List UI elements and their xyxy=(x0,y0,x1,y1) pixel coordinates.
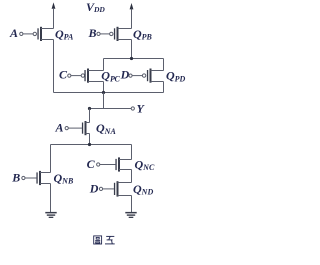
svg-text:B: B xyxy=(88,26,97,40)
input terminal A (QPA gate) xyxy=(9,26,23,40)
svg-text:QPA: QPA xyxy=(55,27,74,42)
wire output node horizontal xyxy=(90,108,132,110)
wire A to QNA gate xyxy=(68,127,82,129)
pmos QPD xyxy=(142,69,163,83)
wire B to QPB gate xyxy=(100,33,110,35)
wire output node to QNA drain xyxy=(89,109,91,123)
svg-text:QNB: QNB xyxy=(54,171,74,186)
wire node 1 down to QPC source xyxy=(103,59,105,71)
power VDD arrow right / QPB source rail xyxy=(130,3,134,29)
ground at QND source xyxy=(125,212,136,218)
wire C to QPC gate xyxy=(71,75,81,77)
pmos QPA xyxy=(33,27,53,41)
pmos QPB xyxy=(110,27,132,41)
wire QNC source to QND drain xyxy=(131,170,133,183)
svg-text:QPB: QPB xyxy=(133,27,153,42)
junction QNA source on node 3 xyxy=(88,143,91,146)
wire node 3 down to QNC drain xyxy=(131,145,133,160)
wire node 2 horizontal xyxy=(54,92,164,94)
label QNA xyxy=(96,121,116,136)
wire QNB source to ground xyxy=(50,184,52,213)
wire QPD drain to node 2 xyxy=(163,82,165,93)
svg-text:Y: Y xyxy=(137,102,146,116)
input terminal D (QPD gate) xyxy=(120,68,132,82)
wire QND source to ground xyxy=(131,196,133,213)
svg-text:VDD: VDD xyxy=(86,0,105,14)
label QPC xyxy=(101,69,120,84)
wire node 1 horizontal xyxy=(104,58,164,60)
svg-text:QND: QND xyxy=(133,182,153,197)
input terminal B (QPB gate) xyxy=(88,26,101,40)
input terminal A (QNA gate) xyxy=(55,120,69,134)
label QNB xyxy=(54,171,74,186)
net VDD label xyxy=(86,0,105,14)
wire C to QNC gate xyxy=(100,164,116,166)
output terminal Y xyxy=(131,102,145,116)
input terminal B (QNB gate) xyxy=(11,170,25,184)
svg-text:A: A xyxy=(55,120,64,134)
svg-text:QNC: QNC xyxy=(135,157,155,172)
caption 圖五 (figure five) xyxy=(94,236,115,244)
wire node 3 horizontal xyxy=(51,144,132,146)
svg-text:QPD: QPD xyxy=(166,69,186,84)
svg-text:C: C xyxy=(87,157,96,171)
wire D to QPD gate xyxy=(132,75,142,77)
wire node 2 to output node xyxy=(103,93,105,109)
label QNC xyxy=(135,157,155,172)
wire D to QND gate xyxy=(103,188,114,190)
junction output node / QNA drain xyxy=(88,107,91,110)
svg-text:D: D xyxy=(89,181,99,195)
svg-text:QPC: QPC xyxy=(101,69,120,84)
input terminal D (QND gate) xyxy=(89,181,103,195)
label QPD xyxy=(166,69,186,84)
wire node 3 down to QNB drain xyxy=(50,145,52,173)
power VDD arrow left / QPA source rail xyxy=(52,2,56,28)
nmos QND xyxy=(114,181,132,196)
wire QPC drain to node 2 xyxy=(103,82,105,93)
input terminal C (QPC gate) xyxy=(59,68,71,82)
wire node 1 down to QPD source xyxy=(163,59,165,71)
wire B to QNB gate xyxy=(25,177,36,179)
nmos QNA xyxy=(82,121,90,135)
label QPB xyxy=(133,27,153,42)
svg-text:B: B xyxy=(11,170,20,184)
nmos QNB xyxy=(36,171,50,185)
wire A to QPA gate xyxy=(23,33,33,35)
pmos QPC xyxy=(81,69,103,83)
svg-text:C: C xyxy=(59,68,68,82)
label QND xyxy=(133,182,153,197)
svg-text:A: A xyxy=(9,26,18,40)
wire QNA source to node 3 xyxy=(89,134,91,145)
nmos QNC xyxy=(115,157,131,171)
label QPA xyxy=(55,27,74,42)
wire QPB drain to node 1 xyxy=(131,40,133,59)
svg-text:D: D xyxy=(120,68,130,82)
input terminal C (QNC gate) xyxy=(87,157,100,171)
svg-text:QNA: QNA xyxy=(96,121,116,136)
wire QPA drain to node 2 xyxy=(53,40,55,93)
ground at QNB source xyxy=(45,212,56,218)
junction QPB drain on node 1 xyxy=(130,57,133,60)
junction QPC drain on node 2 xyxy=(102,91,105,94)
